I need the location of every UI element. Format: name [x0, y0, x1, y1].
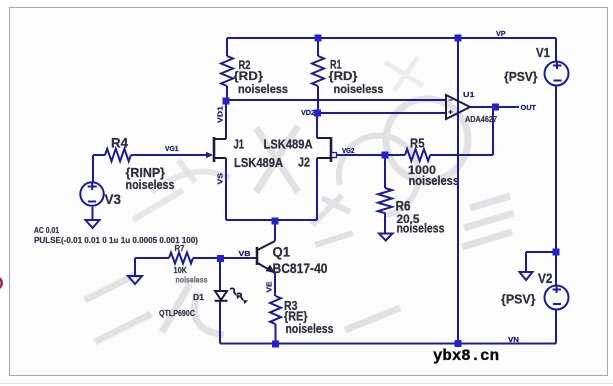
svg-text:QTLP690C: QTLP690C	[159, 309, 195, 318]
svg-text:R5: R5	[410, 137, 425, 151]
svg-text:OUT: OUT	[521, 103, 537, 112]
svg-text:J1: J1	[234, 137, 245, 152]
svg-text:Q1: Q1	[273, 244, 291, 260]
svg-text:V3: V3	[105, 191, 122, 207]
svg-text:{RD}: {RD}	[329, 69, 358, 83]
svg-text:BC817-40: BC817-40	[273, 260, 328, 276]
svg-text:VG2: VG2	[342, 146, 355, 155]
svg-text:R7: R7	[175, 244, 186, 253]
svg-text:VD1: VD1	[216, 106, 225, 123]
svg-text:VG1: VG1	[165, 144, 179, 153]
svg-text:LSK489A: LSK489A	[264, 137, 314, 152]
svg-text:ADA4627: ADA4627	[465, 115, 497, 124]
svg-text:U1: U1	[463, 90, 475, 99]
svg-text:{PSV}: {PSV}	[504, 69, 538, 84]
svg-text:LSK489A: LSK489A	[234, 155, 284, 170]
svg-text:noiseless: noiseless	[286, 322, 334, 336]
svg-text:VS: VS	[216, 173, 225, 185]
svg-text:PULSE(-0.01 0.01 0 1u 1u 0.000: PULSE(-0.01 0.01 0 1u 1u 0.0005 0.001 10…	[34, 236, 198, 245]
svg-text:noiseless: noiseless	[176, 276, 208, 285]
svg-text:noiseless: noiseless	[334, 82, 384, 96]
svg-text:noiseless: noiseless	[409, 174, 460, 188]
svg-text:J2: J2	[298, 155, 310, 170]
svg-text:V2: V2	[538, 270, 553, 286]
svg-text:V1: V1	[536, 45, 550, 60]
svg-text:{PSV}: {PSV}	[501, 292, 536, 307]
svg-text:VN: VN	[508, 335, 519, 344]
svg-text:noiseless: noiseless	[238, 82, 288, 96]
svg-text:VB: VB	[239, 249, 252, 258]
svg-text:VD2: VD2	[301, 108, 315, 117]
svg-text:VE: VE	[265, 282, 274, 293]
svg-text:10K: 10K	[174, 266, 188, 275]
svg-text:D1: D1	[193, 293, 205, 302]
svg-text:VP: VP	[496, 29, 506, 38]
svg-text:AC 0.01: AC 0.01	[34, 226, 59, 235]
svg-text:noiseless: noiseless	[397, 222, 445, 236]
svg-text:ybx8.cn: ybx8.cn	[433, 347, 499, 365]
svg-text:R4: R4	[111, 135, 128, 151]
svg-text:noiseless: noiseless	[126, 177, 175, 192]
svg-text:{RD}: {RD}	[234, 69, 264, 83]
